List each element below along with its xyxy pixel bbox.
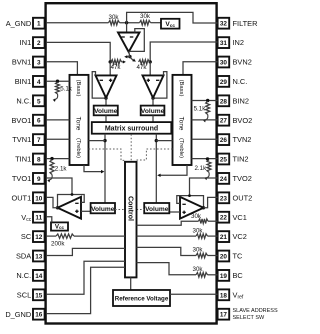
svg-text:25: 25 [220, 157, 228, 164]
Volume block R1 [141, 106, 165, 116]
wire Control to Reference Voltage [130, 277, 132, 290]
wire U2 output to Volume L1 [105, 98, 107, 106]
resistor R11 30k [196, 234, 208, 239]
svg-text:2.1k: 2.1k [55, 165, 68, 172]
pin 7 box [33, 134, 45, 145]
op-amp U4 output L [58, 197, 82, 219]
node U5 inverting junction [188, 194, 191, 197]
svg-text:28: 28 [220, 98, 228, 105]
svg-text:7: 7 [37, 137, 41, 144]
pin 17 box [218, 309, 230, 320]
wire U2 feedback loop [92, 72, 104, 99]
svg-text:BVN1: BVN1 [12, 58, 31, 67]
svg-text:TC: TC [233, 252, 244, 261]
wire TVO2 pin24 to U5 inverting [190, 178, 218, 196]
node TIN1 junction [50, 157, 53, 160]
svg-text:12: 12 [35, 234, 43, 241]
node U4 output [56, 206, 59, 209]
wire OUT1 pin10 [47, 197, 58, 207]
wire VC1 from Control [137, 221, 199, 225]
pin 3 box [33, 57, 45, 68]
wire Tone L output tap [89, 140, 106, 142]
op-amp U1 bias buffer [118, 33, 140, 53]
svg-text:OUT1: OUT1 [11, 193, 31, 202]
wire VC2 from Control [137, 235, 197, 237]
pin 6 box [33, 115, 45, 126]
pin 16 box [33, 309, 45, 320]
ground hook R7 [204, 115, 208, 121]
Matrix surround block [92, 122, 172, 134]
Control block [125, 162, 137, 278]
node U2 output [104, 96, 107, 99]
node U5 output [202, 206, 205, 209]
resistor R3 47k [111, 60, 122, 65]
pin 10 box [33, 192, 45, 203]
dashed Volume L2 to Control [115, 209, 125, 211]
wiper arrow right 47k [130, 58, 134, 61]
wire R12 to pin20 [208, 255, 218, 257]
svg-text:(Bass): (Bass) [178, 80, 184, 97]
pin 18 box [218, 289, 230, 300]
svg-text:BVO2: BVO2 [233, 116, 253, 125]
svg-text:8: 8 [37, 157, 41, 164]
svg-text:30k: 30k [140, 13, 151, 20]
svg-text:30k: 30k [193, 266, 204, 273]
wire Matrix to Volume R2 column [155, 134, 157, 203]
U2 plus mark [109, 79, 112, 81]
pin 15 box [33, 289, 45, 300]
wire BC from Control [137, 263, 197, 275]
pin 20 box [218, 251, 230, 262]
wire TVN2 pin26 [192, 138, 218, 140]
ground hook R6 [48, 175, 52, 181]
svg-text:22: 22 [220, 215, 228, 222]
Tone block R [173, 75, 192, 165]
wire 30k junction segment [120, 22, 140, 24]
resistor R2 30k [140, 20, 151, 25]
wire Tone L bottom out [84, 165, 102, 172]
svg-text:30k: 30k [193, 247, 204, 254]
svg-text:BVN2: BVN2 [233, 58, 252, 67]
svg-text:SCL: SCL [17, 290, 31, 299]
svg-text:(Bass): (Bass) [75, 80, 81, 97]
pin 24 box [218, 173, 230, 184]
svg-text:TVO2: TVO2 [233, 174, 252, 183]
pin 23 box [218, 192, 230, 203]
pin 11 box [33, 212, 45, 223]
pin 21 box [218, 231, 230, 242]
svg-text:5: 5 [37, 98, 41, 105]
wiper arrow left 47k [126, 56, 130, 58]
U4 minus mark [75, 202, 78, 204]
resistor R6 2.1k [50, 160, 54, 175]
svg-text:SDA: SDA [16, 252, 31, 261]
wire R11 to pin21 [208, 235, 218, 237]
svg-text:9: 9 [37, 176, 41, 183]
svg-text:TVN1: TVN1 [12, 135, 31, 144]
svg-text:29: 29 [220, 79, 228, 86]
node U1 output [128, 55, 131, 58]
wire BIN1 pin4 [47, 80, 70, 82]
svg-text:30k: 30k [109, 14, 120, 21]
svg-text:26: 26 [220, 137, 228, 144]
Vcc supply box [161, 19, 180, 29]
pin 14 box [33, 270, 45, 281]
svg-text:Volume: Volume [145, 206, 169, 213]
svg-text:(Treble): (Treble) [178, 138, 184, 158]
wire U3 output to Volume R1 [152, 98, 154, 106]
node tone tap L [103, 139, 106, 142]
wire TIN1 pin8 [47, 158, 70, 160]
U5 minus mark [182, 203, 185, 205]
svg-text:Tone: Tone [178, 117, 185, 131]
svg-text:BVO1: BVO1 [11, 116, 31, 125]
ground hook R8 [205, 172, 209, 178]
svg-text:TIN1: TIN1 [15, 155, 31, 164]
svg-text:Volume: Volume [141, 108, 165, 115]
pin 32 box [218, 18, 230, 29]
svg-text:N.C.: N.C. [16, 96, 31, 105]
pin 29 box [218, 76, 230, 87]
dashed Control to Volume R2 [137, 209, 145, 211]
svg-text:18: 18 [220, 292, 228, 299]
svg-text:Tone: Tone [75, 117, 82, 131]
svg-text:3: 3 [37, 60, 41, 67]
U4 plus mark [75, 210, 78, 212]
svg-text:5.1k: 5.1k [194, 105, 207, 112]
node tone tap R [155, 139, 158, 142]
resistor R9 200k [56, 234, 74, 238]
wire Tone R output tap [156, 140, 172, 142]
svg-text:TVN2: TVN2 [233, 135, 252, 144]
wire Vref pin18 [170, 293, 218, 295]
dashed matrix to control [130, 134, 132, 161]
wire IN2 pin31 to node B [150, 42, 217, 62]
svg-text:SELECT SW: SELECT SW [233, 315, 265, 321]
resistor R4 47k [139, 60, 150, 65]
svg-text:5.1k: 5.1k [60, 86, 73, 93]
svg-text:31: 31 [220, 40, 228, 47]
U1 minus feedback mark [130, 36, 134, 38]
wire node A to op-amp U2 input [109, 62, 111, 75]
op-amp U3 volume R [143, 75, 164, 98]
svg-text:D_GND: D_GND [5, 310, 31, 319]
ground hook R5 [54, 94, 58, 100]
resistor R5 5.1k [56, 82, 60, 94]
svg-text:OUT2: OUT2 [233, 193, 253, 202]
node TIN2 junction [206, 157, 209, 160]
node BIN1 junction [56, 80, 59, 83]
node B IN2/47k junction [149, 60, 152, 63]
resistor R1 30k [109, 20, 120, 25]
wire node B to op-amp U3 input [149, 62, 151, 75]
svg-text:BIN2: BIN2 [233, 96, 249, 105]
wire Volume R1 to Matrix [152, 115, 154, 122]
svg-text:VC2: VC2 [233, 232, 247, 241]
wire bias junction to op-amp U1 input [126, 23, 128, 32]
wire U1 feedback loop [129, 29, 144, 52]
wire 30k to Vcc box [151, 22, 162, 24]
U5 plus mark [182, 211, 185, 213]
wire BVO2 pin27 [192, 119, 218, 121]
pin 8 box [33, 154, 45, 165]
svg-text:Vcc: Vcc [55, 223, 65, 230]
pin 28 box [218, 95, 230, 106]
svg-text:TVO1: TVO1 [12, 174, 31, 183]
pin 27 box [218, 115, 230, 126]
wire BVO1 pin6 [47, 119, 70, 121]
pin 5 box [33, 95, 45, 106]
dashed control to Tone R [137, 149, 173, 160]
svg-text:FILTER: FILTER [233, 19, 258, 28]
svg-text:32: 32 [220, 21, 228, 28]
wire U4 feedback loop [58, 195, 85, 208]
svg-text:30k: 30k [191, 213, 202, 220]
resistor R7 5.1k [206, 101, 210, 114]
svg-text:Volume: Volume [94, 108, 118, 115]
Volume block R2 [144, 203, 169, 213]
node BIN2 junction [206, 99, 209, 102]
svg-text:14: 14 [35, 273, 43, 280]
op-amp U5 output R [180, 197, 204, 219]
resistor R8 2.1k [207, 160, 211, 173]
svg-text:Matrix surround: Matrix surround [105, 126, 158, 133]
U1 minus input mark [121, 36, 125, 38]
svg-text:13: 13 [35, 254, 43, 261]
wire SC pin12 segment [47, 235, 56, 237]
svg-text:SC: SC [21, 232, 32, 241]
resistor R10 30k [199, 219, 209, 224]
wire BIN2 pin28 [192, 100, 218, 102]
pin 4 box [33, 76, 45, 87]
svg-text:4: 4 [37, 79, 41, 86]
pin 13 box [33, 251, 45, 262]
pin 30 box [218, 57, 230, 68]
wire TIN2 pin25 [192, 158, 218, 160]
node U4 inverting junction [71, 193, 74, 196]
svg-text:47k: 47k [111, 64, 122, 71]
pin 22 box [218, 212, 230, 223]
wire TVN1 pin7 [47, 138, 70, 140]
IC body outline [46, 3, 217, 323]
svg-text:24: 24 [220, 176, 228, 183]
wire D_GND pin16 to Control [47, 267, 125, 313]
wire Volume L2 to U4 plus [81, 210, 91, 212]
svg-text:N.C.: N.C. [233, 77, 248, 86]
svg-text:47k: 47k [137, 64, 148, 71]
pin 12 box [33, 231, 45, 242]
wire U1 output stub [129, 51, 130, 56]
svg-text:16: 16 [35, 312, 43, 319]
pin 31 box [218, 37, 230, 48]
wire SC to Control [74, 235, 125, 237]
U3 plus mark [147, 79, 150, 81]
dashed control to Tone L [89, 149, 126, 160]
wire U5 feedback loop [177, 196, 204, 208]
node U3 output [151, 96, 154, 99]
svg-text:N.C.: N.C. [16, 271, 31, 280]
svg-text:TIN2: TIN2 [233, 155, 249, 164]
pin 2 box [33, 37, 45, 48]
svg-text:15: 15 [35, 292, 43, 299]
svg-text:19: 19 [220, 273, 228, 280]
svg-text:Volume: Volume [91, 206, 115, 213]
svg-text:Reference Voltage: Reference Voltage [115, 296, 169, 303]
svg-text:(Treble): (Treble) [75, 138, 81, 158]
svg-text:21: 21 [220, 234, 228, 241]
pin 9 box [33, 173, 45, 184]
svg-text:VC1: VC1 [233, 213, 247, 222]
wire Tone R bottom out [159, 165, 187, 175]
wire Volume L1 to Matrix [105, 115, 107, 122]
op-amp U2 volume L [96, 75, 117, 98]
svg-text:2.1k: 2.1k [194, 165, 207, 172]
svg-text:IN2: IN2 [233, 38, 245, 47]
wire BVN1 pin3 to Tone L [47, 62, 78, 75]
node bias junction [125, 21, 128, 24]
U3 minus mark [156, 79, 159, 81]
wire SCL pin15 to Control [47, 261, 125, 294]
U2 minus mark [100, 79, 103, 81]
svg-text:10: 10 [35, 195, 43, 202]
wire R10 to pin22 [208, 220, 218, 222]
R3 wiper stub [122, 61, 125, 63]
svg-text:11: 11 [35, 215, 42, 222]
wire OUT2 pin23 [204, 197, 218, 207]
svg-text:A_GND: A_GND [6, 19, 31, 28]
wire Vcc pin11 to box [47, 217, 52, 223]
pin 26 box [218, 134, 230, 145]
svg-text:30: 30 [220, 60, 228, 67]
pin 25 box [218, 154, 230, 165]
svg-text:17: 17 [220, 312, 228, 319]
svg-text:Control: Control [126, 196, 133, 221]
svg-text:BC: BC [233, 271, 244, 280]
svg-text:23: 23 [220, 195, 228, 202]
wire IN1 pin2 to node A [47, 42, 110, 62]
wire TC from Control [137, 247, 197, 255]
wire R13 to pin19 [208, 274, 218, 276]
wire A_GND pin1 to 30k [47, 22, 109, 24]
node A IN1/47k junction [109, 60, 112, 63]
svg-text:IN1: IN1 [20, 38, 32, 47]
wire Matrix to Volume L2 column [104, 134, 106, 203]
svg-text:200k: 200k [51, 241, 65, 248]
Vcc box pin11 [51, 222, 68, 230]
wire Volume R2 to U5 plus [169, 211, 180, 213]
wire BVN2 pin30 to Tone R [183, 62, 218, 75]
svg-text:20: 20 [220, 254, 228, 261]
wire SDA pin13 to Control [47, 248, 125, 255]
svg-text:BIN1: BIN1 [15, 77, 31, 86]
svg-text:27: 27 [220, 118, 228, 125]
Volume block L1 [94, 106, 118, 116]
wire bias junction to FILTER pin32 [127, 12, 218, 23]
svg-text:6: 6 [37, 118, 41, 125]
Reference Voltage block [113, 290, 170, 306]
wire TVO1 pin9 to U4 inverting [47, 178, 72, 195]
pin 1 box [33, 18, 45, 29]
svg-text:SLAVE ADDRESS: SLAVE ADDRESS [233, 308, 278, 314]
resistor R12 30k [196, 253, 208, 258]
Tone block L [70, 75, 89, 165]
pin 19 box [218, 270, 230, 281]
svg-text:1: 1 [37, 21, 41, 28]
svg-text:2: 2 [37, 40, 41, 47]
wire U3 feedback loop [155, 72, 167, 99]
resistor R13 30k [196, 273, 208, 278]
svg-text:30k: 30k [193, 227, 204, 234]
Volume block L2 [91, 203, 115, 213]
